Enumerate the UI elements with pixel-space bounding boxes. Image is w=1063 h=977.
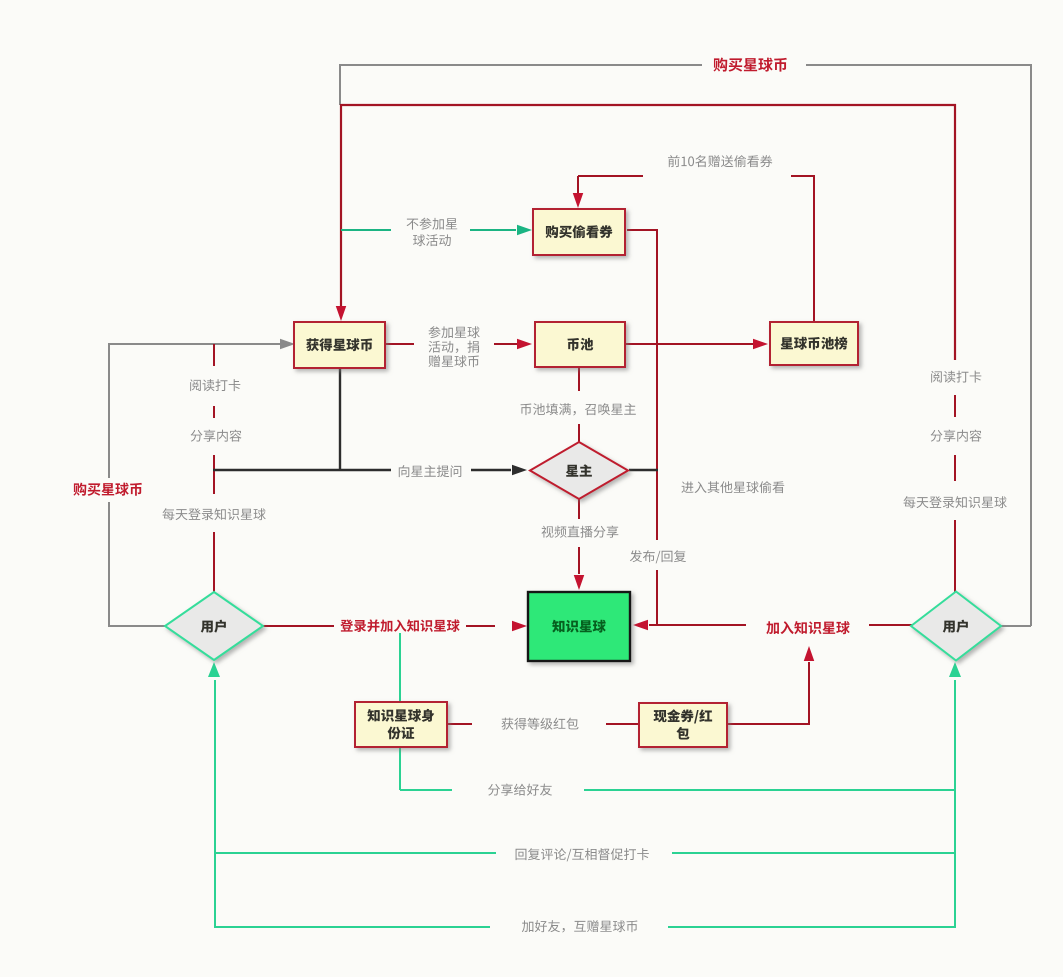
wire red from 现金券红包 up — [727, 662, 809, 724]
box 购买偷看券 — [533, 209, 625, 255]
wire gray left vertical lower — [108, 502, 110, 627]
arrowhead red up at 加入知识星球 — [804, 646, 815, 661]
label 加好友互赠星球币 — [522, 920, 638, 932]
label 进入其他星球偷看 — [681, 481, 784, 493]
wire red right vertical dash1 — [954, 395, 956, 417]
wire green 回复评论 right — [672, 852, 956, 854]
wire red right of 知识星球 — [658, 624, 746, 626]
wire red from 获得星球币 right — [385, 343, 414, 345]
wire red left vertical seg2 — [213, 455, 215, 494]
label 加入知识星球 — [766, 621, 849, 634]
wire red from 购买偷看券 right down — [627, 230, 657, 540]
wire red 币池 down seg1 — [578, 367, 580, 391]
wire gray left horizontal to coin box — [109, 343, 284, 345]
label 不参加星 — [407, 218, 458, 230]
wire black 向星主提问 right — [471, 469, 511, 471]
wire gray left vertical upper — [108, 343, 110, 478]
label 每天登录知识星球 left — [163, 508, 266, 520]
wire green right vertical below diamond — [954, 680, 956, 928]
label 获得等级红包 — [502, 718, 579, 730]
arrowhead gray into 获得星球币 — [280, 339, 295, 350]
wire red 星主 down seg2 — [578, 547, 580, 574]
wire green left vertical below diamond — [214, 680, 216, 928]
arrowhead black into 星主 — [512, 465, 527, 476]
wire red 币池 to 星球币池榜 — [625, 343, 753, 345]
wire red to 现金券红包 left — [606, 723, 640, 725]
wire red left vertical seg1 — [213, 344, 215, 366]
wire green 加好友 left — [214, 926, 490, 928]
wire gray into left user diamond — [109, 625, 166, 627]
wire green 分享给好友 right — [584, 789, 956, 791]
arrowhead green into 购买偷看券 — [517, 225, 532, 236]
label 赠星球币 — [429, 355, 479, 367]
arrowhead green up into right diamond — [949, 662, 961, 677]
wire green 不参加 left segment — [341, 229, 391, 231]
wire gray top-left vertical — [339, 64, 341, 105]
label 活动捐 — [429, 341, 479, 353]
wire red right vertical lower — [954, 520, 956, 593]
wire red from left diamond right — [263, 625, 334, 627]
wire black 向星主提问 left — [213, 469, 391, 471]
label 向星主提问 — [399, 465, 462, 477]
wire red down to junction lower — [656, 570, 658, 625]
arrowhead green up into left diamond — [208, 662, 220, 677]
label 球活动 — [413, 234, 451, 246]
label 每天登录知识星球 right — [904, 496, 1007, 508]
wire red left vertical dash — [213, 406, 215, 418]
wire gray into right user diamond — [1001, 625, 1031, 627]
arrowhead red into 购买偷看券 top — [573, 193, 584, 208]
arrowhead red into 获得星球币 top — [336, 306, 347, 321]
label 分享内容 left — [191, 430, 242, 442]
wire gray top line right segment — [806, 64, 1032, 66]
wire red top line — [341, 104, 956, 106]
label 前10名赠送偷看券 — [668, 155, 772, 167]
label 视频直播分享 — [542, 526, 619, 538]
box 获得星球币 — [294, 322, 385, 368]
wire red right vertical dash2 — [954, 455, 956, 481]
label 分享内容 right — [931, 430, 982, 442]
wire red from 身份证 right — [447, 723, 472, 725]
wire red left vertical seg3 — [213, 532, 215, 593]
wire red from 星球币池榜 top — [791, 176, 814, 322]
wire red 币池 down seg2 — [578, 424, 580, 443]
wire black from 获得星球币 bottom — [339, 368, 341, 471]
node 知识星球 — [528, 592, 630, 661]
wire black 星主 right to red vertical — [629, 469, 658, 471]
box 现金券红包 — [639, 703, 727, 747]
wire green vertical from 登录 label — [399, 633, 401, 790]
wire red 星主 down seg1 — [578, 499, 580, 519]
wire red to 币池 — [494, 343, 518, 345]
label 发布/回复 — [630, 550, 686, 563]
arrowhead red into 知识星球 top — [574, 575, 585, 590]
label 回复评论互相督促打卡 — [516, 848, 649, 861]
diamond 用户 right — [911, 592, 1001, 661]
wire green 不参加 right segment — [470, 229, 516, 231]
wire green 回复评论 left — [215, 852, 496, 854]
label 币池填满召唤星主 — [520, 403, 635, 415]
wire green 加好友 right — [668, 926, 956, 928]
box 知识星球身份证 — [355, 702, 447, 747]
arrowhead red into 星球币池榜 — [753, 339, 768, 350]
box 星球币池榜 — [770, 322, 858, 365]
wire gray right vertical — [1030, 64, 1032, 626]
wire green 分享给好友 left — [400, 789, 452, 791]
label 购买星球币 left — [73, 483, 142, 496]
wire red top of 购买偷看券 — [578, 175, 643, 177]
wire red right vertical upper — [954, 104, 956, 360]
diamond 用户 left — [165, 592, 263, 660]
arrowhead red into 知识星球 left — [512, 621, 527, 632]
label 登录并加入知识星球 — [340, 619, 459, 632]
label 阅读打卡 right — [931, 371, 981, 383]
label 分享给好友 — [488, 784, 552, 796]
box 币池 — [535, 322, 625, 367]
diamond 星主 — [530, 442, 628, 499]
label 阅读打卡 left — [190, 379, 240, 391]
wire red to right diamond — [869, 624, 912, 626]
wire red down to 获得星球币 — [340, 104, 342, 306]
wire red stub to arrow — [649, 624, 658, 626]
arrowhead red into 币池 left — [517, 339, 532, 350]
wire gray top line left segment — [339, 64, 702, 66]
wire red to 知识星球 left — [466, 625, 495, 627]
label 购买星球币 top — [713, 58, 786, 72]
label 参加星球 — [429, 326, 480, 338]
wire red down to 购买偷看券 — [577, 176, 579, 194]
arrowhead red into 知识星球 right — [633, 620, 648, 631]
